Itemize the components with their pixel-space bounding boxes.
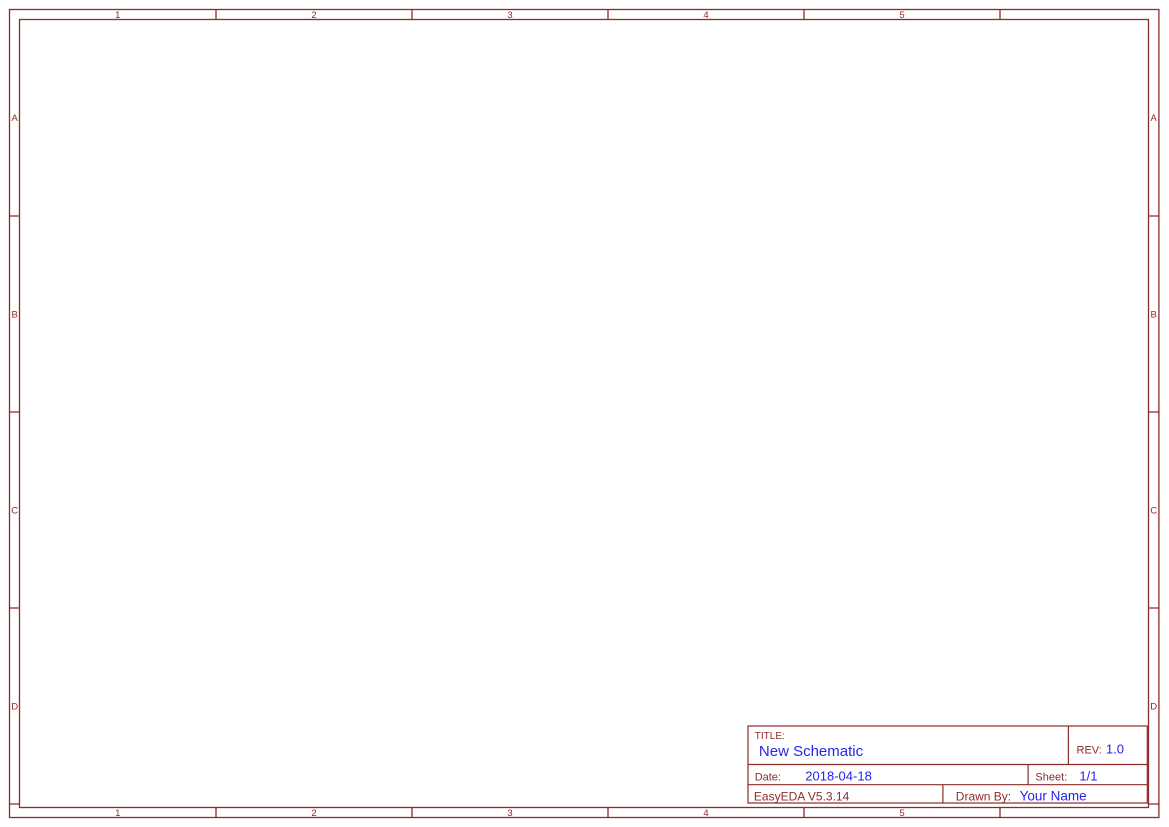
svg-text:2018-04-18: 2018-04-18: [805, 768, 872, 783]
svg-text:A: A: [1151, 113, 1158, 124]
svg-text:B: B: [12, 309, 18, 320]
svg-text:Sheet:: Sheet:: [1035, 771, 1067, 783]
svg-text:D: D: [11, 702, 18, 713]
svg-text:A: A: [12, 113, 19, 124]
frame row letters right: [1150, 113, 1157, 713]
svg-text:EasyEDA V5.3.14: EasyEDA V5.3.14: [754, 790, 850, 804]
svg-text:Date:: Date:: [755, 771, 781, 783]
svg-text:C: C: [11, 506, 18, 517]
svg-text:1: 1: [115, 10, 120, 21]
svg-text:5: 5: [899, 10, 904, 21]
svg-text:4: 4: [703, 808, 708, 819]
svg-text:New Schematic: New Schematic: [759, 743, 864, 760]
svg-text:B: B: [1151, 309, 1157, 320]
svg-text:2: 2: [311, 10, 316, 21]
svg-text:4: 4: [703, 10, 708, 21]
title block texts: [754, 731, 1102, 803]
svg-text:Drawn By:: Drawn By:: [956, 790, 1011, 804]
svg-text:C: C: [1150, 506, 1157, 517]
svg-text:2: 2: [311, 808, 316, 819]
frame column numbers top: [115, 10, 904, 21]
svg-text:Your Name: Your Name: [1020, 789, 1087, 804]
svg-text:1/1: 1/1: [1079, 768, 1097, 783]
svg-text:3: 3: [507, 10, 512, 21]
svg-text:1: 1: [115, 808, 120, 819]
frame column numbers bottom: [115, 808, 904, 819]
frame row letters left: [11, 113, 18, 713]
title block: [748, 726, 1147, 803]
svg-text:3: 3: [507, 808, 512, 819]
svg-text:TITLE:: TITLE:: [755, 731, 785, 742]
svg-text:5: 5: [899, 808, 904, 819]
svg-text:D: D: [1150, 702, 1157, 713]
svg-text:1.0: 1.0: [1106, 742, 1124, 757]
svg-text:REV:: REV:: [1077, 745, 1102, 757]
